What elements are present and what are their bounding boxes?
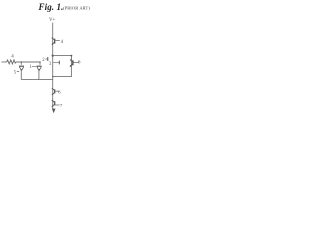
junction dot at corner (71, 55, 73, 57)
wire Q2 emitter to rail (38, 70, 40, 79)
svg-text:2: 2 (42, 58, 45, 63)
transistor Q4 (right) (70, 58, 73, 67)
wire input from left edge (2, 61, 7, 63)
svg-text:1: 1 (29, 65, 32, 70)
svg-text:6: 6 (78, 61, 81, 66)
junction dot rail-line (52, 76, 54, 78)
svg-text:7: 7 (60, 103, 63, 108)
svg-text:4: 4 (61, 40, 64, 45)
wire from junction to right (53, 56, 72, 60)
wire node 3 stub (53, 62, 59, 64)
junction node at main line y=55.5 (52, 55, 54, 57)
wire Q6 base stub (55, 104, 59, 106)
wire resistor to node 2 (16, 61, 40, 63)
wire V+ supply vertical main line (52, 23, 54, 109)
svg-text:5: 5 (14, 70, 17, 75)
junction dot Q1 collector (21, 61, 23, 63)
wire Q3 base stub (55, 40, 59, 42)
transistor Q1 (left, diode-connected) (19, 62, 24, 70)
wire Q4 base stub (74, 61, 79, 63)
transistor Q6 (bottom stack lower, diode-connected) (52, 100, 55, 107)
wire Q5 base stub (55, 90, 59, 92)
svg-text:4: 4 (11, 54, 14, 59)
resistor R (zigzag) (7, 60, 17, 64)
svg-text:6: 6 (58, 89, 61, 94)
wire Q4 emitter down and rail left to main line (53, 67, 71, 77)
transistor Q2 (37, 62, 42, 70)
terminal tick at node 3 (58, 61, 60, 65)
svg-text:V+: V+ (49, 18, 56, 23)
svg-text:Fig. 1.: Fig. 1. (38, 2, 64, 12)
ground arrow (V- down) (52, 109, 56, 114)
junction dot Q2 collector (39, 61, 41, 63)
transistor Q3 (top, diode-connected) (52, 38, 55, 45)
svg-text:3: 3 (49, 62, 52, 67)
wire Q1 emitter to rail (20, 70, 22, 79)
wire emitter rail (left) (21, 79, 52, 81)
wire leader from label 1 to Q2 base (32, 65, 37, 67)
svg-text:(PRIOR ART): (PRIOR ART) (63, 5, 90, 10)
transistor Q5 (bottom stack upper, diode-connected) (52, 88, 55, 95)
